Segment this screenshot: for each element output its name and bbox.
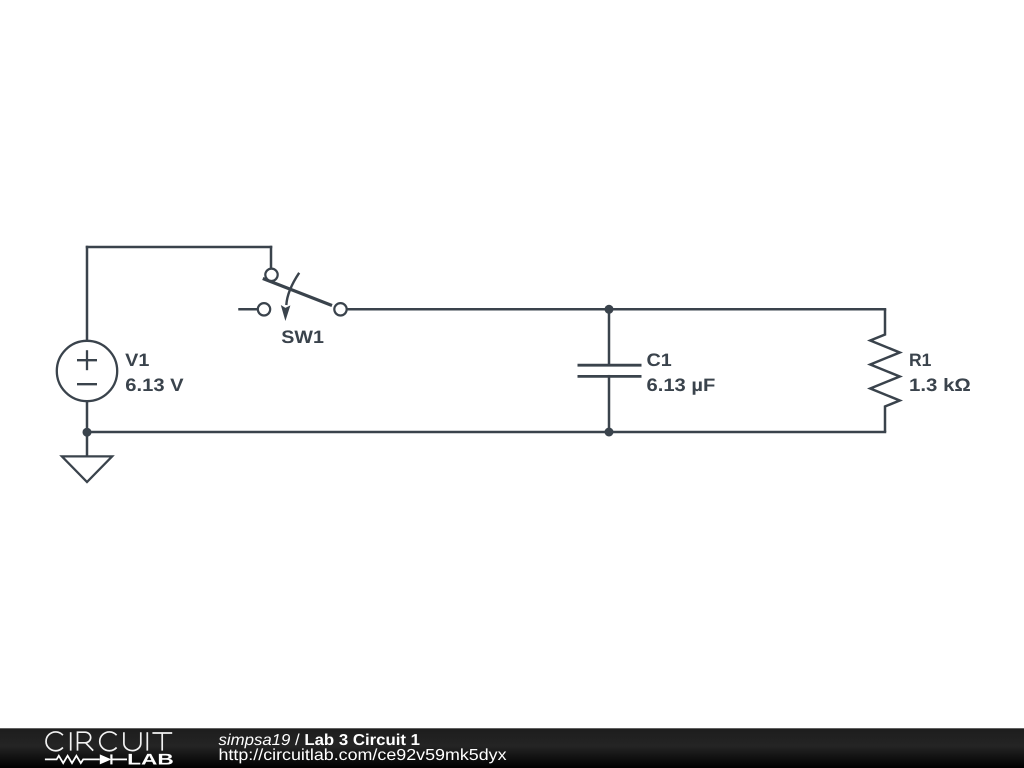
switch right terminal circle — [334, 303, 346, 315]
svg-text:6.13 µF: 6.13 µF — [647, 375, 716, 395]
switch action arc — [286, 273, 299, 305]
wire switch drop — [270, 247, 273, 269]
capacitor C1 bottom lead — [608, 376, 611, 432]
resistor R1 — [870, 309, 899, 432]
wire top-left vertical — [86, 247, 89, 340]
wire bottom — [87, 431, 885, 434]
wire switch left stub — [240, 308, 258, 311]
wire top horizontal — [87, 246, 271, 249]
switch left terminal circle — [258, 303, 270, 315]
svg-text:C1: C1 — [647, 350, 672, 370]
switch pivot circle — [265, 269, 277, 281]
capacitor C1 top lead — [608, 309, 611, 365]
svg-text:R1: R1 — [909, 350, 931, 370]
svg-text:1.3 kΩ: 1.3 kΩ — [909, 375, 971, 395]
node junction dot left — [83, 428, 92, 437]
voltage source V1 — [57, 341, 117, 401]
node junction dot cap top — [605, 305, 614, 314]
logo resistor squiggle — [45, 756, 100, 763]
capacitor C1 plates — [578, 365, 642, 376]
svg-text:6.13 V: 6.13 V — [125, 375, 183, 395]
svg-text:LAB: LAB — [127, 752, 174, 768]
switch SW1 — [258, 269, 347, 321]
node junction dot cap bottom — [605, 428, 614, 437]
logo diode — [100, 754, 112, 764]
svg-text:V1: V1 — [125, 350, 149, 370]
logo CIRCUIT — [46, 732, 172, 751]
ground — [62, 456, 112, 482]
switch arrowhead — [281, 305, 291, 321]
wire top-right — [347, 308, 885, 311]
wire V1 bottom lead — [86, 402, 89, 432]
footer bar — [0, 728, 1024, 768]
svg-text:SW1: SW1 — [281, 327, 324, 347]
svg-text:http://circuitlab.com/ce92v59m: http://circuitlab.com/ce92v59mk5dyx — [219, 747, 507, 764]
wire ground lead — [86, 432, 89, 456]
switch blade — [263, 279, 332, 306]
